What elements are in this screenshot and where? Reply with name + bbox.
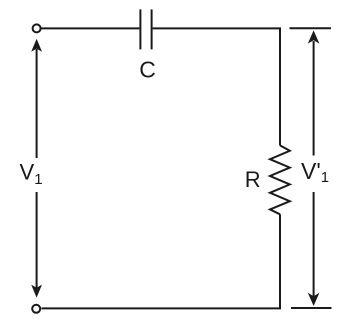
capacitor C (right plate) xyxy=(151,9,153,49)
V'1 arrow shaft (right, upper segment) xyxy=(313,41,315,156)
V1 arrowhead down (toward bottom terminal) xyxy=(31,285,42,298)
svg-text:V'1: V'1 xyxy=(301,158,329,186)
V1 arrowhead up (toward top terminal) xyxy=(31,39,42,52)
capacitor C (left plate) xyxy=(139,9,141,49)
V'1 measurement top bar xyxy=(290,27,332,29)
wire: resistor to bottom-right corner, bottom wire to terminal xyxy=(42,214,281,308)
V'1 arrowhead up xyxy=(308,30,320,43)
V1 arrow shaft (left, upper segment) xyxy=(36,49,38,158)
resistor R (zigzag) xyxy=(270,145,290,214)
wire: top-left terminal to capacitor xyxy=(42,27,140,29)
V'1 measurement bottom bar xyxy=(291,307,332,309)
terminal (top-left input) xyxy=(33,24,41,32)
wire: capacitor to top-right corner, down to resistor xyxy=(153,28,280,145)
V'1 arrow shaft (right, lower segment) xyxy=(313,192,315,297)
svg-text:V1: V1 xyxy=(20,159,43,188)
terminal (bottom-left input) xyxy=(32,305,40,313)
svg-text:R: R xyxy=(245,167,261,192)
V'1 arrowhead down xyxy=(308,293,320,306)
svg-text:C: C xyxy=(139,57,156,83)
V1 arrow shaft (left, lower segment) xyxy=(36,192,38,288)
